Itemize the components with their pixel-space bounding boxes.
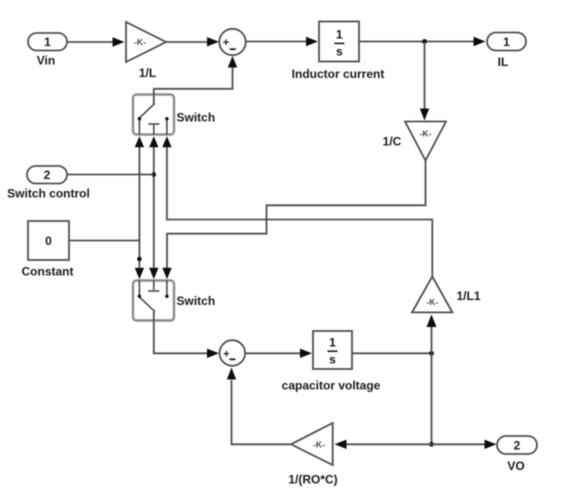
output port 1 (IL)	[487, 33, 526, 51]
svg-text:-K-: -K-	[426, 297, 438, 307]
integrator block 1/s (capacitor voltage)	[313, 331, 352, 369]
wire upper switch output to sum1 bottom	[154, 68, 233, 105]
wire junction down to VO line	[431, 353, 433, 444]
integrator block 1/s (Inductor current)	[319, 22, 359, 62]
gain 1/C (-K-) pointing down	[405, 122, 446, 161]
junction node switch control	[152, 172, 157, 177]
wire Vin to gain 1/L	[67, 41, 113, 43]
gain 1/(RO*C) (-K-) pointing left	[291, 423, 333, 465]
svg-text:s: s	[329, 353, 336, 367]
wire gain 1/C to lower switch right input	[167, 161, 426, 269]
sum block 1 (+ -)	[219, 29, 245, 55]
wire integrator 2 to junction	[352, 352, 432, 354]
svg-text:1: 1	[329, 336, 336, 350]
lower switch inner symbol	[139, 281, 167, 312]
svg-text:Switch: Switch	[177, 111, 216, 125]
svg-text:-K-: -K-	[313, 439, 325, 449]
gain 1/L1 (-K-) pointing up	[412, 277, 452, 313]
output port 2 (VO)	[497, 436, 537, 454]
wire sum2 to integrator 2	[245, 352, 301, 354]
svg-text:Constant: Constant	[22, 265, 74, 279]
junction node capacitor voltage	[429, 351, 434, 356]
wire lower switch output to sum2	[154, 312, 208, 354]
upper switch inner symbol	[139, 104, 167, 135]
svg-text:1/L: 1/L	[139, 66, 156, 80]
upper switch block	[133, 95, 174, 135]
svg-text:1/(RO*C): 1/(RO*C)	[288, 473, 337, 487]
svg-text:1: 1	[336, 28, 343, 42]
input port 2 (Switch control)	[27, 166, 67, 184]
svg-text:Inductor current: Inductor current	[292, 67, 385, 81]
svg-text:1/L1: 1/L1	[457, 289, 481, 303]
wire port2 to middle net	[67, 174, 154, 176]
svg-text:1: 1	[44, 35, 51, 49]
input port 1 (Vin)	[28, 33, 67, 51]
wire gain 1/L1 output to upper switch right input	[167, 147, 432, 276]
svg-text:capacitor voltage: capacitor voltage	[282, 379, 381, 393]
svg-text:VO: VO	[507, 459, 524, 473]
svg-text:+: +	[223, 348, 229, 360]
svg-text:1: 1	[503, 35, 510, 49]
svg-text:-K-: -K-	[134, 37, 146, 47]
wire junction to gain 1/(RO*C) input	[347, 443, 432, 445]
wire junction down to gain 1/C	[424, 42, 426, 110]
svg-text:Switch: Switch	[177, 294, 216, 308]
svg-text:-K-: -K-	[420, 129, 432, 139]
junction node on constant net	[137, 257, 142, 262]
wire switch-control net vertical (middle inputs)	[153, 147, 155, 268]
junction node VO line	[429, 442, 434, 447]
svg-text:Switch control: Switch control	[7, 187, 90, 201]
svg-text:IL: IL	[498, 55, 509, 69]
constant block (0)	[28, 221, 69, 260]
wire gain 1/L to sum1	[166, 41, 208, 43]
lower switch block	[133, 281, 174, 321]
wire junction up into gain 1/L1	[431, 327, 433, 353]
wire integrator to out port IL	[359, 41, 474, 43]
svg-text:1/C: 1/C	[383, 135, 402, 149]
svg-text:2: 2	[44, 168, 51, 182]
wire Constant net vertical (upper switch input 1 / lower switch input 1)	[138, 147, 140, 268]
svg-text:Vin: Vin	[37, 54, 55, 68]
sum block 2 (+ -)	[220, 340, 246, 366]
gain 1/L (-K-)	[126, 22, 166, 62]
wire sum1 to integrator	[247, 41, 307, 43]
junction node on IL wire	[422, 39, 427, 44]
svg-text:2: 2	[514, 439, 521, 453]
svg-text:s: s	[336, 45, 343, 59]
wire constant to net	[69, 240, 139, 242]
wire junction to out port VO	[432, 443, 486, 445]
svg-text:0: 0	[45, 234, 52, 248]
svg-text:+: +	[223, 37, 229, 49]
wire gain 1/(RO*C) output to sum2 bottom	[232, 380, 292, 444]
